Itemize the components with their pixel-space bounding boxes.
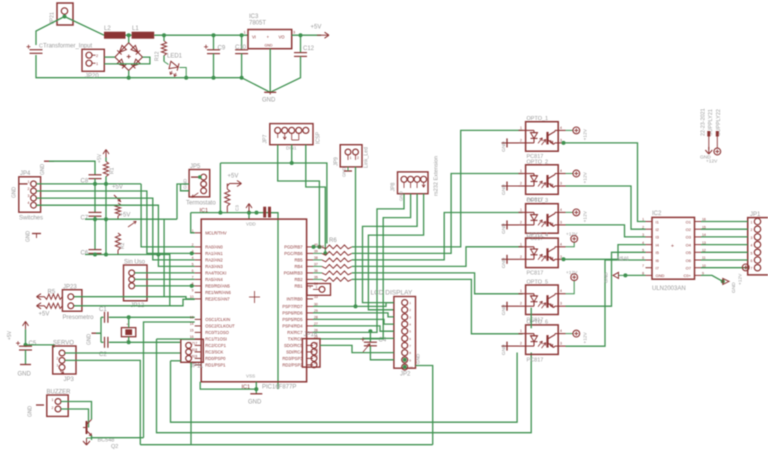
label GND	[26, 231, 32, 243]
label JP11	[190, 364, 204, 370]
ground	[705, 147, 712, 154]
svg-text:2: 2	[520, 138, 522, 142]
pin 2	[96, 54, 98, 58]
junction	[212, 76, 216, 80]
svg-text:+12V: +12V	[566, 232, 578, 238]
wire	[128, 317, 130, 327]
supply +12V	[566, 274, 578, 294]
svg-text:OSC1/CLKIN: OSC1/CLKIN	[205, 317, 230, 322]
svg-text:RX/RC7: RX/RC7	[287, 330, 303, 335]
trimmer arrow	[363, 344, 370, 352]
wire	[701, 275, 723, 281]
crystal Q1	[121, 321, 135, 342]
ground	[613, 272, 625, 278]
connector JP4	[19, 177, 41, 212]
transistor Q2	[83, 420, 92, 437]
ground	[191, 175, 202, 179]
svg-text:+5V: +5V	[39, 312, 50, 318]
connector JP5	[189, 170, 210, 197]
svg-text:2: 2	[52, 406, 54, 410]
svg-text:18: 18	[194, 348, 198, 352]
junction	[104, 217, 108, 221]
junction	[323, 251, 327, 255]
connector JP23	[62, 290, 82, 312]
label PC817	[527, 357, 544, 363]
svg-text:+5V: +5V	[112, 185, 123, 191]
svg-text:4: 4	[560, 289, 562, 293]
label C3	[235, 205, 240, 211]
supply +12V	[742, 264, 749, 271]
svg-text:IC3: IC3	[249, 14, 259, 20]
wire	[355, 167, 357, 307]
svg-text:3: 3	[560, 255, 562, 259]
svg-text:+: +	[267, 35, 270, 40]
label GND	[12, 187, 18, 199]
connector JP10	[307, 284, 331, 296]
capacitor C7	[89, 212, 102, 219]
wire	[191, 213, 195, 233]
label PC817	[527, 318, 544, 324]
label +12V	[583, 331, 589, 343]
junction	[240, 33, 244, 37]
label C9	[218, 46, 226, 52]
ground	[502, 342, 519, 351]
svg-text:Switches: Switches	[19, 216, 43, 222]
label JP5	[190, 164, 201, 170]
wire loop3	[140, 444, 432, 446]
wire vss gnd	[255, 382, 257, 394]
junction	[290, 161, 294, 165]
wire	[292, 34, 321, 36]
connector JP2	[394, 297, 416, 371]
inductor L1	[132, 32, 155, 39]
svg-text:1: 1	[350, 156, 352, 160]
connector JP20	[82, 49, 104, 71]
wire net4	[352, 247, 523, 267]
svg-text:RA5/AN4: RA5/AN4	[205, 277, 223, 282]
svg-text:2: 2	[28, 187, 30, 191]
svg-text:PSP6/RD6: PSP6/RD6	[282, 311, 303, 316]
label C7	[81, 216, 89, 222]
wire	[105, 184, 107, 255]
label PC817	[527, 271, 544, 277]
svg-text:PIC16F877P: PIC16F877P	[262, 385, 296, 391]
junction	[254, 387, 258, 391]
label GND	[501, 344, 507, 355]
label N$46	[617, 257, 629, 263]
wire	[363, 337, 394, 339]
wire	[129, 341, 180, 343]
svg-text:3: 3	[309, 285, 311, 289]
ground	[36, 404, 44, 406]
svg-text:Presometro: Presometro	[63, 315, 95, 321]
label ICSP	[316, 131, 322, 144]
label C10	[235, 45, 247, 51]
svg-text:JP1: JP1	[750, 212, 761, 218]
svg-text:GND: GND	[342, 167, 347, 177]
label R1	[110, 167, 116, 174]
regulator IC3	[248, 30, 292, 49]
label +12V	[583, 171, 589, 183]
svg-text:1: 1	[192, 229, 194, 233]
svg-text:3: 3	[560, 138, 562, 142]
ground	[20, 183, 28, 185]
label R2	[120, 242, 126, 249]
svg-text:6: 6	[192, 269, 194, 273]
svg-text:2: 2	[96, 54, 98, 58]
svg-text:2: 2	[520, 255, 522, 259]
svg-text:O2: O2	[686, 227, 692, 232]
wire net MCLR	[191, 212, 278, 214]
svg-text:R2: R2	[120, 242, 126, 249]
svg-text:+12V: +12V	[738, 273, 744, 285]
label +5V	[7, 330, 13, 340]
label BUZZER	[47, 390, 72, 396]
wire	[74, 299, 195, 306]
wire net mclr	[220, 163, 327, 244]
junction	[93, 217, 97, 221]
svg-text:RD0/PSP0: RD0/PSP0	[205, 356, 226, 361]
jp2 pin numbers	[409, 301, 413, 369]
label 7805T	[249, 21, 266, 27]
svg-text:RC0/T1OSO: RC0/T1OSO	[205, 330, 229, 335]
wire node B	[85, 218, 177, 220]
label Sin Uso	[124, 260, 146, 266]
supply arrow	[128, 221, 136, 227]
junction	[24, 343, 28, 347]
label OPTO_2	[527, 159, 549, 165]
label Transformer_Input	[43, 44, 92, 50]
svg-text:RC3/SCK: RC3/SCK	[205, 350, 223, 355]
label IC1	[200, 208, 209, 214]
svg-text:3: 3	[642, 233, 644, 237]
svg-text:JP3: JP3	[64, 377, 75, 383]
junction	[104, 182, 108, 186]
svg-text:C6: C6	[81, 251, 89, 257]
svg-text:3: 3	[560, 220, 562, 224]
wire	[313, 326, 394, 331]
wire	[416, 366, 433, 445]
svg-text:14: 14	[190, 322, 194, 326]
pin 1	[244, 31, 246, 35]
svg-text:RE2/CS/AN7: RE2/CS/AN7	[205, 297, 230, 302]
label GND	[248, 400, 262, 406]
svg-text:2: 2	[642, 225, 644, 229]
svg-text:7: 7	[751, 267, 753, 271]
wire	[141, 184, 195, 247]
svg-text:C9: C9	[218, 46, 226, 52]
label GND	[700, 155, 711, 161]
ground	[502, 220, 519, 229]
svg-text:10: 10	[190, 295, 194, 299]
junction	[127, 76, 131, 80]
pin 17	[194, 342, 198, 346]
svg-text:SDO/RC5: SDO/RC5	[284, 343, 303, 348]
svg-text:17: 17	[194, 342, 198, 346]
svg-text:GND: GND	[501, 141, 507, 152]
svg-text:R6: R6	[329, 238, 337, 244]
label GND	[731, 282, 737, 293]
ic IC2 center	[671, 244, 674, 250]
label JP7	[263, 134, 269, 143]
connector JP16	[302, 339, 320, 368]
label IC3	[249, 14, 259, 20]
wire	[26, 345, 55, 348]
pin 2	[28, 187, 30, 191]
wire	[135, 285, 195, 287]
wire IC3 gnd	[269, 49, 271, 93]
junction	[721, 279, 725, 283]
wire	[61, 402, 92, 420]
label GND	[40, 164, 46, 176]
ground	[344, 167, 352, 171]
label GND	[501, 184, 507, 195]
svg-text:GND: GND	[604, 272, 610, 283]
svg-text:1: 1	[520, 169, 522, 173]
svg-text:PC817: PC817	[527, 357, 544, 363]
label PC817	[527, 197, 544, 203]
junction	[403, 365, 407, 369]
svg-text:7: 7	[642, 264, 644, 268]
svg-text:13: 13	[190, 316, 194, 320]
svg-text:JP4: JP4	[20, 171, 31, 177]
svg-text:5: 5	[751, 251, 753, 255]
wire	[126, 34, 132, 36]
svg-text:5: 5	[192, 263, 194, 267]
wire	[91, 436, 93, 441]
wire icsp vpp	[291, 145, 293, 163]
pin 2	[52, 406, 54, 410]
label JP16	[304, 332, 318, 338]
wire	[625, 274, 645, 276]
junction	[317, 245, 321, 249]
svg-text:MCLR/THV: MCLR/THV	[205, 231, 227, 236]
label +5V	[97, 153, 103, 163]
junction	[562, 141, 566, 145]
pin 2	[357, 156, 359, 160]
label C14	[39, 44, 43, 50]
svg-text:OPTO_2: OPTO_2	[527, 159, 549, 165]
svg-text:C3: C3	[235, 205, 240, 211]
pin 3	[28, 194, 30, 198]
svg-text:ULN2003AN: ULN2003AN	[652, 286, 686, 292]
svg-text:15: 15	[190, 329, 194, 333]
wire opto2 out	[566, 186, 646, 229]
junction	[623, 273, 627, 277]
svg-text:2: 2	[520, 182, 522, 186]
wire	[100, 317, 102, 342]
optocoupler OPTO_2	[519, 165, 566, 195]
wire	[135, 272, 195, 274]
svg-text:+5V: +5V	[97, 153, 103, 163]
label SUPPLY21	[708, 109, 714, 136]
label GND	[501, 304, 507, 315]
junction	[190, 251, 194, 255]
junction	[212, 33, 216, 37]
trimmer R3	[114, 195, 121, 219]
label C2	[99, 352, 107, 358]
svg-text:JP23: JP23	[63, 284, 77, 290]
wire	[61, 409, 89, 428]
svg-text:3: 3	[751, 236, 753, 240]
label OPTO_6	[527, 319, 549, 325]
svg-text:RB4: RB4	[294, 264, 303, 269]
svg-text:O3: O3	[686, 235, 692, 240]
svg-text:RC2/CCP1: RC2/CCP1	[205, 343, 226, 348]
svg-text:6: 6	[751, 259, 753, 263]
label VSS	[246, 374, 255, 379]
svg-text:RC1/T1OSI: RC1/T1OSI	[205, 337, 227, 342]
svg-text:7: 7	[192, 276, 194, 280]
svg-text:VO: VO	[279, 35, 286, 40]
wire	[181, 184, 190, 191]
svg-text:3: 3	[560, 342, 562, 346]
label +5V	[120, 213, 131, 219]
svg-text:GND: GND	[416, 353, 421, 364]
label C8	[81, 179, 89, 185]
ground	[502, 255, 519, 264]
label Link_Led	[364, 147, 370, 168]
label PC817	[527, 154, 544, 160]
wire jp11 riser	[190, 362, 192, 444]
wire tx	[313, 194, 411, 339]
junction	[184, 76, 188, 80]
wire net5	[352, 273, 523, 294]
optocoupler OPTO_4	[519, 238, 566, 268]
resistor R5b	[37, 303, 63, 309]
svg-text:OPTO_3: OPTO_3	[527, 198, 549, 204]
svg-text:3: 3	[560, 182, 562, 186]
label GND	[416, 353, 421, 364]
svg-text:+5V: +5V	[120, 213, 131, 219]
svg-text:2: 2	[520, 220, 522, 224]
svg-text:RB2: RB2	[294, 277, 303, 282]
ground	[250, 393, 262, 395]
label GND	[28, 406, 34, 418]
label C1	[99, 307, 107, 313]
junction	[218, 211, 222, 215]
wire net1	[352, 130, 523, 247]
label +12V	[583, 210, 589, 222]
ground	[92, 332, 101, 334]
capacitor C14	[27, 45, 43, 54]
label IC2	[652, 211, 662, 217]
wire	[128, 35, 130, 43]
capacitor C4	[361, 331, 394, 360]
wire	[37, 205, 195, 266]
svg-text:GND: GND	[26, 231, 32, 243]
svg-text:R7: R7	[319, 245, 325, 250]
ic IC2 pins	[642, 218, 706, 279]
wire loop2	[157, 339, 532, 433]
wire servo2 to loop3	[65, 360, 140, 444]
wire rx	[313, 194, 404, 333]
connector JP7	[270, 124, 313, 145]
optocoupler OPTO_1	[519, 122, 566, 152]
svg-text:1: 1	[96, 62, 98, 66]
svg-text:OPTO_4: OPTO_4	[527, 233, 549, 239]
svg-text:4: 4	[560, 126, 562, 130]
svg-text:GND: GND	[28, 406, 34, 418]
label C4	[379, 338, 387, 344]
inductor L2	[104, 32, 126, 39]
capacitor C10	[235, 35, 248, 77]
svg-text:1: 1	[520, 289, 522, 293]
ground	[502, 302, 519, 311]
capacitor C6	[89, 219, 102, 254]
junction	[403, 358, 407, 362]
supply +5V	[230, 181, 242, 187]
label VDD	[246, 222, 256, 227]
svg-text:O4: O4	[686, 242, 692, 247]
label R5	[48, 290, 56, 296]
wire	[37, 198, 195, 260]
connector JP8	[398, 172, 429, 194]
label Termostato	[186, 201, 216, 207]
junction	[127, 315, 131, 319]
svg-text:GND: GND	[501, 304, 507, 315]
svg-text:GND: GND	[262, 98, 276, 104]
wire opto6 out	[566, 260, 646, 346]
connector JP11	[181, 339, 204, 362]
wire net3	[352, 213, 523, 260]
ground	[723, 278, 729, 284]
junction	[299, 33, 303, 37]
wire rowB riser	[163, 219, 165, 297]
svg-text:GND: GND	[399, 191, 404, 201]
supply +12V	[566, 235, 578, 246]
label +5V	[228, 174, 239, 180]
pin 19	[194, 355, 198, 359]
wire	[363, 194, 418, 303]
svg-text:PSP4/RD4: PSP4/RD4	[282, 324, 303, 329]
svg-text:4: 4	[560, 329, 562, 333]
pin marks	[404, 182, 425, 188]
ground	[83, 438, 92, 445]
wire	[313, 313, 394, 317]
label JP2	[400, 372, 411, 378]
svg-text:BUZZER: BUZZER	[47, 390, 72, 396]
supply +12V	[566, 127, 580, 134]
svg-text:JP2: JP2	[400, 372, 411, 378]
optocoupler OPTO_3	[519, 204, 566, 234]
svg-text:1: 1	[52, 398, 54, 402]
svg-text:VI: VI	[252, 35, 256, 40]
label JP12	[131, 303, 145, 309]
wire	[104, 57, 150, 64]
svg-text:JP8: JP8	[391, 182, 397, 191]
label BC548	[98, 438, 115, 444]
mcu left pins	[190, 229, 235, 368]
svg-text:GND: GND	[501, 257, 507, 268]
svg-text:2: 2	[751, 228, 753, 232]
bridge rectifier B1	[115, 43, 143, 71]
svg-text:3: 3	[293, 31, 295, 35]
pin SUPPLY22	[716, 131, 719, 148]
svg-text:RA1/AN1: RA1/AN1	[205, 251, 223, 256]
led LED1	[164, 61, 186, 77]
optocoupler OPTO_6	[519, 325, 566, 355]
pin marks	[57, 357, 64, 374]
junction	[190, 284, 194, 288]
wire	[92, 436, 144, 438]
svg-text:GND: GND	[656, 273, 665, 278]
svg-text:PSP5/RD5: PSP5/RD5	[282, 317, 303, 322]
svg-text:7805T: 7805T	[249, 21, 266, 27]
wire	[135, 278, 195, 280]
svg-text:IC2: IC2	[652, 211, 662, 217]
pin 1	[350, 156, 352, 160]
